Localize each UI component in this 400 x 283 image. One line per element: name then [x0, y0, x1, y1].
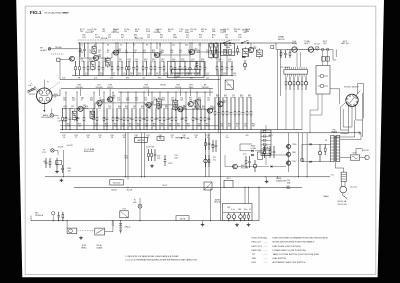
junction dots row1	[95, 42, 96, 43]
svg-text:C86: C86	[238, 209, 241, 211]
capacitor row1-17	[159, 61, 161, 68]
wire lamp	[51, 109, 53, 114]
wires audio mid column	[205, 133, 207, 177]
ground G2	[60, 178, 62, 180]
wires bank leads	[265, 125, 267, 130]
svg-text:56k: 56k	[153, 100, 156, 102]
capacitor row2-30	[196, 108, 198, 118]
resistor row1-7	[117, 61, 119, 67]
svg-text:.......: .......	[264, 242, 269, 244]
svg-text:1k: 1k	[103, 118, 105, 120]
transistor TR16 output	[287, 161, 291, 165]
trimmer beat cut	[316, 47, 320, 51]
switch SW DL	[223, 42, 225, 44]
ground G5	[236, 223, 238, 225]
svg-text:C11: C11	[172, 45, 175, 47]
svg-text:1k: 1k	[161, 125, 163, 127]
transistor TR11	[188, 102, 193, 107]
wire jack panel drop	[317, 94, 319, 110]
capacitor C107	[164, 155, 166, 160]
svg-text:333: 333	[118, 108, 121, 110]
resistor R71	[264, 146, 266, 150]
svg-text:R63: R63	[116, 118, 119, 120]
ground G8	[202, 223, 204, 225]
svg-text:1N60: 1N60	[173, 37, 177, 39]
wire lamp3 drop	[139, 208, 141, 221]
svg-text:38: 38	[111, 137, 113, 139]
svg-text:18p: 18p	[234, 31, 237, 33]
resistor R100	[49, 158, 51, 161]
svg-text:73: 73	[171, 137, 173, 139]
wire row2 bus GND	[60, 132, 361, 134]
wire cluster feed	[244, 187, 246, 203]
svg-text:33p: 33p	[225, 37, 228, 39]
ground G6	[248, 223, 250, 225]
svg-text:0.02: 0.02	[62, 78, 65, 80]
svg-text:B.CUT: B.CUT	[315, 44, 322, 46]
resistor IC hang 1	[285, 77, 287, 82]
electrolytic C60	[228, 213, 230, 215]
svg-text:R15: R15	[152, 52, 155, 54]
svg-text:R35: R35	[158, 78, 161, 80]
speaker jack	[300, 158, 304, 162]
resistor IC hang 5	[301, 77, 303, 82]
capacitor C101	[45, 158, 47, 162]
resistor R60	[244, 213, 246, 216]
svg-text:2.2k: 2.2k	[105, 125, 108, 127]
resistor preamp-3	[222, 97, 224, 112]
AC plug cord	[341, 181, 343, 186]
svg-text:B366-015A: B366-015A	[84, 150, 94, 153]
resistor row2-5	[83, 108, 85, 117]
box CN1 PB	[157, 137, 164, 141]
wire row2 top bus	[61, 88, 213, 90]
antenna FM jack	[48, 48, 51, 51]
wire row1 bottom bus	[72, 75, 233, 77]
svg-text:47: 47	[81, 100, 83, 102]
wire row2 second bus	[118, 91, 213, 93]
wire switch to plug	[105, 231, 113, 233]
svg-text:4CA(09) 2SB: 4CA(09) 2SB	[276, 179, 287, 182]
svg-text:2.2k: 2.2k	[155, 118, 158, 120]
svg-text:2.5V 0.3A: 2.5V 0.3A	[58, 119, 67, 122]
svg-text:FB-2B: FB-2B	[160, 85, 166, 87]
wire cluster bus	[223, 212, 251, 214]
svg-text:C50: C50	[144, 100, 147, 102]
svg-text:B+: B+	[212, 37, 214, 39]
svg-text:TRANS: TRANS	[331, 131, 338, 134]
svg-text:.......: .......	[264, 246, 269, 248]
resistor row2-8	[103, 108, 105, 117]
svg-text:.......: .......	[264, 238, 269, 240]
IF transformer IFT10	[196, 100, 201, 108]
transistor TR2	[113, 50, 118, 55]
decoder cap C20	[196, 61, 198, 64]
electrolytic C62	[240, 213, 242, 215]
resistor row1-28	[221, 61, 223, 67]
svg-text:2.2k: 2.2k	[80, 52, 83, 54]
svg-text:4.7u: 4.7u	[243, 153, 246, 155]
capacitor C1	[84, 43, 86, 49]
svg-text:C107: C107	[168, 163, 172, 165]
svg-text:330: 330	[148, 108, 151, 110]
wire lamp3 top	[139, 198, 141, 204]
resistor row2-25	[171, 108, 173, 117]
svg-text:473: 473	[137, 125, 140, 127]
svg-text:33p: 33p	[104, 61, 107, 63]
svg-text:C64: C64	[142, 118, 145, 120]
connector box CB-1	[225, 80, 233, 89]
capacitor preamp-8	[242, 97, 244, 113]
svg-text:R11: R11	[116, 52, 119, 54]
electrolytic C19	[244, 60, 246, 63]
resistor R66	[208, 155, 210, 159]
ground G7	[266, 180, 268, 182]
svg-text:CN-79: CN-79	[162, 185, 167, 187]
svg-text:BUS 1B: BUS 1B	[214, 202, 221, 204]
svg-text:C31: C31	[110, 78, 113, 80]
rotary switch S2	[346, 94, 358, 106]
svg-text:2SC67: 2SC67	[107, 87, 113, 89]
resistor R61	[248, 213, 250, 216]
diode D7	[271, 165, 273, 167]
svg-text:333: 333	[181, 118, 184, 120]
svg-text:1.2k: 1.2k	[117, 100, 120, 102]
svg-text:2SC380: 2SC380	[96, 87, 103, 89]
capacitor row2-18	[143, 108, 145, 118]
transistor TR8	[108, 97, 113, 102]
resistor row1-21	[179, 61, 181, 67]
svg-text:68k: 68k	[172, 61, 175, 63]
resistor row2-2	[65, 108, 67, 117]
svg-text:224: 224	[161, 52, 164, 54]
svg-text:222: 222	[108, 37, 111, 39]
svg-text:REM.L: REM.L	[81, 247, 87, 249]
svg-text:330: 330	[161, 61, 164, 63]
svg-text:224: 224	[135, 100, 138, 102]
svg-text:R33: R33	[126, 78, 129, 80]
svg-text:15k: 15k	[191, 61, 194, 63]
svg-text:104: 104	[197, 75, 200, 77]
audio amp IC1 bar	[284, 69, 308, 74]
wire chain drop	[275, 43, 277, 50]
wire box to amp	[60, 59, 69, 61]
box 4R-1	[224, 180, 233, 187]
svg-text:PB-369-A: PB-369-A	[35, 214, 44, 217]
variable capacitor tuning gang VC1	[37, 88, 53, 104]
junction dots mid buses	[63, 176, 64, 177]
capacitor row1-8	[121, 61, 123, 68]
wires IC to bus	[285, 90, 287, 130]
wire preamp to driver	[225, 166, 233, 168]
svg-text:T2: T2	[120, 45, 122, 47]
resistor row1-24	[195, 61, 197, 67]
wire audio links	[255, 150, 270, 152]
svg-text:182: 182	[206, 75, 209, 77]
svg-text:.......: .......	[264, 250, 269, 252]
IF transformer IFT2	[209, 44, 214, 58]
transistor TR14 driver	[287, 144, 291, 148]
resistor R80	[324, 144, 326, 148]
electrolytic C66	[205, 155, 207, 159]
svg-text:47u: 47u	[213, 159, 216, 161]
wire mid bus 187	[74, 186, 302, 188]
IF transformer IFT1	[106, 59, 111, 67]
resistor row1-15	[150, 61, 152, 67]
resistor row1-6	[111, 61, 113, 67]
dial lamp PL1	[50, 114, 54, 118]
svg-text:1N60: 1N60	[245, 31, 249, 33]
svg-text:4R-1: 4R-1	[227, 178, 231, 180]
wire row2 bus B+	[60, 129, 302, 131]
decoder module box PD-400	[168, 61, 204, 77]
resistor R72	[212, 140, 214, 144]
svg-text:103: 103	[207, 100, 210, 102]
svg-text:223: 223	[98, 108, 101, 110]
svg-text:103: 103	[147, 37, 150, 39]
svg-text:AMP SW: AMP SW	[138, 139, 145, 142]
wire switch power	[356, 148, 363, 150]
svg-text:KB-C-2B: KB-C-2B	[135, 38, 144, 40]
capacitor IC hang 2	[289, 77, 291, 82]
capacitor row1-23	[189, 61, 191, 68]
svg-text:TO PB: TO PB	[184, 138, 190, 140]
potentiometer VR2 tone	[308, 47, 313, 52]
microphone MIC	[51, 212, 54, 215]
transistor TR6	[78, 106, 83, 111]
capacitor row1-11	[133, 61, 135, 68]
svg-text:10k: 10k	[232, 97, 235, 99]
svg-text:C15: C15	[198, 45, 201, 47]
capacitor row1-14	[146, 61, 148, 68]
svg-text:R51: R51	[162, 100, 165, 102]
resistor row1-27	[216, 61, 218, 67]
ground G1	[56, 170, 58, 172]
wire rect top	[302, 143, 309, 145]
jack J2	[326, 48, 329, 51]
svg-text:C9: C9	[98, 52, 100, 54]
wires pots drop long	[277, 50, 279, 130]
svg-text:1k: 1k	[113, 75, 115, 77]
resistor R1	[79, 43, 81, 48]
capacitor C100	[56, 158, 58, 163]
svg-text:560: 560	[177, 125, 180, 127]
svg-text:C7: C7	[133, 45, 135, 47]
capacitor C65	[208, 138, 210, 143]
svg-text:47k: 47k	[119, 61, 122, 63]
svg-text:8.2k: 8.2k	[138, 75, 141, 77]
svg-text:C47: C47	[108, 100, 111, 102]
svg-text:C66: C66	[194, 118, 197, 120]
capacitor row2-9	[106, 108, 108, 118]
svg-text:68: 68	[134, 52, 136, 54]
svg-text:3-C6A: 3-C6A	[263, 147, 269, 150]
svg-text:47k: 47k	[216, 97, 219, 99]
ceramic filter CF1	[91, 62, 96, 70]
resistor row1-9	[126, 61, 128, 67]
svg-text:332: 332	[168, 31, 171, 33]
resistor R105	[148, 149, 150, 153]
svg-text:CN 126 V4J: CN 126 V4J	[337, 204, 347, 206]
transistor TR1	[93, 55, 98, 60]
svg-text:R54: R54	[198, 100, 201, 102]
ratio detector box	[256, 50, 262, 57]
svg-text:(2-core): (2-core)	[351, 185, 358, 188]
wire bus left end	[30, 216, 32, 221]
capacitor preamp-2	[218, 97, 220, 113]
mech link dashed bottom	[78, 230, 95, 232]
module box UAL-TDA	[221, 43, 235, 55]
svg-text:223: 223	[240, 97, 243, 99]
capacitor row2-3	[69, 108, 71, 118]
svg-text:CN 126 1A: CN 126 1A	[337, 200, 347, 203]
svg-text:SP(B): SP(B)	[292, 43, 298, 45]
ferrite bar antenna AM	[28, 87, 36, 91]
wires audio verticals	[288, 133, 290, 172]
board outline FR-1/B dashed	[78, 39, 240, 41]
svg-text:47: 47	[107, 52, 109, 54]
wire mid bus 177	[45, 176, 330, 178]
svg-text:2SC380: 2SC380	[76, 87, 83, 89]
svg-text:R48: R48	[126, 100, 129, 102]
svg-text:102: 102	[223, 75, 226, 77]
capacitor C72	[215, 140, 217, 145]
svg-text:680: 680	[135, 31, 138, 33]
svg-text:C21: C21	[215, 52, 218, 54]
svg-text:FIG.1: FIG.1	[30, 10, 42, 15]
svg-text:R17: R17	[224, 45, 227, 47]
svg-text:47: 47	[249, 209, 251, 211]
transistor TR9	[146, 102, 151, 107]
svg-text:3-C6A: 3-C6A	[250, 147, 256, 150]
electrolytic C74	[254, 160, 256, 164]
svg-text:10.7: 10.7	[113, 31, 116, 33]
resistor row2-14	[127, 108, 129, 117]
capacitor IC hang 6	[305, 77, 307, 82]
svg-text:2. DC 17 (3 TERMINAL REGULATED: 2. DC 17 (3 TERMINAL REGULATED) NOISE SU…	[125, 259, 197, 262]
IF transformer IFT3	[214, 44, 218, 58]
svg-text:(E): (E)	[324, 43, 327, 45]
capacitor row2-6	[93, 108, 95, 118]
resistor row2-1	[62, 108, 64, 117]
svg-text:12k: 12k	[199, 37, 202, 39]
resistor row2-28	[185, 108, 187, 117]
svg-text:7.32: 7.32	[157, 158, 161, 160]
svg-text:T4: T4	[211, 45, 213, 47]
svg-text:R45: R45	[90, 100, 93, 102]
svg-text:472: 472	[171, 100, 174, 102]
resistor R0	[75, 61, 77, 67]
wire rect mid	[301, 144, 303, 161]
svg-text:472: 472	[197, 52, 200, 54]
capacitor C40	[285, 50, 287, 53]
svg-text:223: 223	[186, 75, 189, 77]
svg-text:R61: R61	[77, 118, 80, 120]
svg-text:DIAL PLATE (ON POSITION): DIAL PLATE (ON POSITION)	[273, 245, 301, 248]
resistor row1-19	[170, 61, 172, 67]
lamp PL2	[51, 149, 55, 153]
resistor row1-3	[87, 61, 89, 67]
potentiometer VR1 volume	[292, 47, 297, 52]
svg-text:.......: .......	[264, 258, 269, 260]
capacitor row2-21	[155, 108, 157, 118]
capacitor row1-26	[204, 61, 206, 68]
svg-text:R65: R65	[168, 118, 171, 120]
jack panel box	[316, 66, 330, 95]
wires row2 drops	[80, 89, 82, 96]
arrow TO PB	[175, 137, 181, 139]
svg-text:103: 103	[227, 207, 230, 209]
wire fuse leads	[340, 157, 351, 159]
svg-text:TR10: TR10	[292, 144, 296, 146]
box AMP SW	[135, 137, 148, 142]
shield dashes	[51, 53, 63, 55]
svg-text:104: 104	[248, 97, 251, 99]
electrolytic C61	[233, 213, 235, 215]
svg-text:DIAL SWITCH: DIAL SWITCH	[273, 257, 287, 260]
svg-text:330: 330	[160, 37, 163, 39]
capacitor C80	[319, 144, 321, 151]
capacitor row2-33	[208, 108, 210, 118]
resistor row2-13	[123, 108, 125, 117]
svg-text:820: 820	[228, 61, 231, 63]
svg-text:223: 223	[124, 31, 127, 33]
capacitor row1-20	[174, 61, 176, 68]
svg-text:FM1.C2O: FM1.C2O	[252, 242, 262, 244]
capacitor C70	[273, 146, 275, 151]
svg-text:FM3.C2FL: FM3.C2FL	[252, 250, 263, 252]
transistor TR7b	[97, 100, 102, 105]
wire row2 bus AGC	[60, 125, 218, 127]
wires pots to IC	[296, 52, 298, 67]
svg-text:103: 103	[89, 52, 92, 54]
svg-text:C62: C62	[90, 118, 93, 120]
resistor R19	[237, 46, 239, 49]
wire row1 lower bus	[60, 79, 220, 81]
svg-text:KD-5B: KD-5B	[58, 146, 64, 148]
svg-text:CB-1: CB-1	[227, 85, 231, 87]
svg-text:T 6A(H): T 6A(H)	[323, 195, 330, 198]
capacitor row2-27	[181, 108, 183, 118]
resistor R65	[205, 138, 207, 142]
svg-text:R19: R19	[188, 52, 191, 54]
transistor TR4	[154, 52, 159, 57]
wire antenna feed	[51, 48, 78, 50]
function switch contact bank	[261, 130, 271, 156]
capacitor C120	[58, 212, 60, 216]
svg-text:KB-7A: KB-7A	[180, 217, 186, 220]
diode D5 D6	[251, 150, 253, 152]
svg-text:104: 104	[108, 108, 111, 110]
resistor row1-30	[231, 61, 233, 67]
wire gang arrow	[43, 104, 45, 111]
svg-text:C3: C3	[94, 45, 96, 47]
svg-text:103: 103	[157, 108, 160, 110]
svg-text:17: 17	[75, 137, 77, 139]
resistor R40	[280, 50, 282, 52]
svg-text:22p: 22p	[130, 75, 133, 77]
svg-text:470: 470	[68, 170, 71, 172]
svg-text:TAPE-TO-TUNE SWITCH (ON POSITI: TAPE-TO-TUNE SWITCH (ON POSITION) SIDE	[273, 253, 320, 256]
switch MODE	[241, 42, 243, 44]
svg-text:TE-580: TE-580	[55, 47, 62, 49]
resistor R106	[151, 149, 153, 153]
resistor row2-4	[76, 108, 78, 117]
svg-text:C06 7B: C06 7B	[67, 145, 74, 147]
wire xfmr top right	[340, 139, 361, 141]
svg-text:AUTOMATIC SHUT-OFF SWITCH: AUTOMATIC SHUT-OFF SWITCH	[273, 261, 306, 264]
component box LED driver	[56, 160, 62, 165]
